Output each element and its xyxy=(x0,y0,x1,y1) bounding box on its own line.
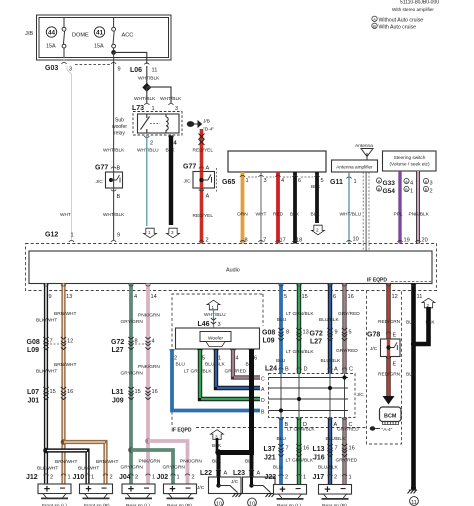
wire BLK G65-6 to G12-18 xyxy=(293,172,297,244)
svg-text:G33: G33 xyxy=(383,180,396,187)
svg-text:BLK: BLK xyxy=(290,212,300,218)
svg-text:BLK: BLK xyxy=(245,459,255,465)
svg-text:10: 10 xyxy=(353,237,359,243)
svg-text:GRY/RED: GRY/RED xyxy=(336,458,358,464)
svg-text:G54: G54 xyxy=(383,188,396,195)
svg-text:J21: J21 xyxy=(264,455,276,462)
svg-text:RED/YEL: RED/YEL xyxy=(193,213,214,219)
svg-text:G03: G03 xyxy=(45,65,58,72)
svg-text:IF EQPD: IF EQPD xyxy=(172,428,192,434)
fuse 41 ACC 15A xyxy=(112,18,116,53)
svg-text:A: A xyxy=(425,179,428,184)
wire RED/GRN audio-12 to BCM xyxy=(386,284,390,397)
svg-text:9: 9 xyxy=(118,67,121,73)
svg-text:A: A xyxy=(224,471,228,477)
svg-text:Antenna amplifier: Antenna amplifier xyxy=(336,164,373,169)
svg-text:2: 2 xyxy=(430,189,433,195)
svg-text:BLU/BLK: BLU/BLK xyxy=(318,465,339,471)
svg-text:BLK: BLK xyxy=(311,184,321,190)
svg-text:PNK/GRN: PNK/GRN xyxy=(180,459,202,465)
svg-text:L22: L22 xyxy=(200,470,212,477)
svg-text:15: 15 xyxy=(50,389,56,395)
note A without auto cruise xyxy=(372,16,377,21)
node BLK/WHT split xyxy=(43,448,49,454)
svg-text:41: 41 xyxy=(96,30,104,37)
svg-text:J16: J16 xyxy=(313,455,325,462)
svg-text:4: 4 xyxy=(134,294,137,300)
wire LT GRN/BLK audio-15 xyxy=(297,284,301,485)
node GRY/GRN split xyxy=(128,447,134,453)
J/B D-4 connector arrow xyxy=(187,121,201,127)
wire WHT/BLU relay pin2 down to arrow 1 xyxy=(146,135,148,226)
svg-text:3: 3 xyxy=(264,178,267,184)
svg-text:B: B xyxy=(405,187,408,192)
svg-text:BLU: BLU xyxy=(276,358,286,364)
svg-text:16: 16 xyxy=(303,446,309,452)
node L24 row B to col B xyxy=(279,408,283,412)
junction block J/B (fuse box) xyxy=(37,15,172,60)
svg-text:BLK/WHT: BLK/WHT xyxy=(36,318,57,324)
svg-text:5: 5 xyxy=(202,356,205,362)
svg-text:15: 15 xyxy=(135,389,141,395)
svg-text:A: A xyxy=(373,17,376,22)
svg-text:A: A xyxy=(378,179,381,184)
svg-text:A: A xyxy=(257,471,261,477)
svg-text:G72: G72 xyxy=(310,331,323,338)
wire GRY/RED woofer-4 to L24 row C xyxy=(233,349,260,378)
ground (L23) xyxy=(266,494,276,498)
svg-text:With Auto cruise: With Auto cruise xyxy=(379,24,417,30)
svg-text:BLU/BLK: BLU/BLK xyxy=(326,436,347,442)
svg-text:9: 9 xyxy=(117,233,120,239)
svg-text:GRY/RED: GRY/RED xyxy=(338,311,360,317)
svg-text:"D-4": "D-4" xyxy=(203,127,214,133)
svg-text:WHT/BLU: WHT/BLU xyxy=(340,212,362,218)
svg-text:2: 2 xyxy=(285,475,288,481)
arrow callout 1 (woofer feed from relay) xyxy=(207,300,220,310)
note B with auto cruise xyxy=(372,23,377,28)
svg-text:J/C: J/C xyxy=(370,346,378,352)
BCM box xyxy=(380,407,402,422)
svg-text:C: C xyxy=(261,377,265,383)
connector G65 box xyxy=(228,151,326,172)
svg-text:BLU: BLU xyxy=(277,436,287,442)
junction connector L22 J/C to ground xyxy=(209,477,242,494)
svg-text:IF EQPD: IF EQPD xyxy=(367,278,387,284)
wire BLU woofer-2 to L24 row B xyxy=(172,349,260,411)
svg-text:L06: L06 xyxy=(130,67,142,74)
svg-text:16: 16 xyxy=(67,389,73,395)
svg-text:2: 2 xyxy=(150,141,153,147)
svg-text:J/C: J/C xyxy=(96,179,104,185)
svg-text:B: B xyxy=(117,166,121,172)
fuse 44 DOME 15A xyxy=(62,18,66,58)
svg-text:WHT/BLK: WHT/BLK xyxy=(103,148,125,154)
svg-text:13: 13 xyxy=(66,294,72,300)
antenna amplifier box xyxy=(332,160,378,172)
svg-text:LT GRN/BLK: LT GRN/BLK xyxy=(287,427,315,433)
svg-text:ORN: ORN xyxy=(237,212,248,218)
node PNK/GRN split xyxy=(145,438,151,444)
svg-text:2: 2 xyxy=(50,475,53,481)
svg-text:2: 2 xyxy=(334,475,337,481)
svg-text:G11: G11 xyxy=(330,179,343,186)
wire BLK G65-5 to arrow 2 xyxy=(315,172,319,223)
svg-text:BLK: BLK xyxy=(426,320,436,326)
svg-text:GRY/RED: GRY/RED xyxy=(336,348,358,354)
svg-text:4: 4 xyxy=(152,339,155,345)
svg-text:relay: relay xyxy=(114,131,125,137)
svg-text:G65: G65 xyxy=(222,179,235,186)
svg-text:11: 11 xyxy=(411,500,417,506)
svg-text:51110-80JB0-000: 51110-80JB0-000 xyxy=(400,0,439,6)
arrow callout 3 xyxy=(167,228,180,238)
wire PPL to G12-19 xyxy=(398,171,401,244)
L24 bottom pins B,D,A,C xyxy=(278,418,283,420)
wire GRY/RED audio-16 xyxy=(342,284,346,485)
node BRN/WHT split xyxy=(61,439,67,445)
svg-text:L23: L23 xyxy=(233,470,245,477)
svg-text:7: 7 xyxy=(286,446,289,452)
svg-text:E: E xyxy=(393,333,397,339)
svg-text:B: B xyxy=(285,367,289,373)
svg-text:1: 1 xyxy=(68,475,71,481)
svg-text:B: B xyxy=(117,194,121,200)
svg-text:1: 1 xyxy=(152,475,155,481)
svg-text:J09: J09 xyxy=(112,398,124,405)
svg-text:12: 12 xyxy=(392,294,398,300)
wire BRN/WHT audio-13 to front speakers xyxy=(61,284,65,485)
svg-text:B: B xyxy=(378,187,381,192)
svg-text:GRY/GRN: GRY/GRN xyxy=(163,465,186,471)
svg-text:BRN/WHT: BRN/WHT xyxy=(54,362,76,368)
svg-text:9: 9 xyxy=(335,330,338,336)
svg-text:LT GRN/BLK: LT GRN/BLK xyxy=(286,311,314,317)
svg-text:6: 6 xyxy=(254,356,257,362)
speaker (rear, J17) xyxy=(319,484,352,499)
svg-text:L09: L09 xyxy=(263,338,275,345)
svg-text:3: 3 xyxy=(218,322,221,328)
svg-text:BLK: BLK xyxy=(212,459,222,465)
woofer box xyxy=(176,328,260,349)
svg-text:WHT/BLU: WHT/BLU xyxy=(204,312,226,318)
svg-text:WHT/BLK: WHT/BLK xyxy=(103,212,125,218)
svg-text:L07: L07 xyxy=(27,389,39,396)
L24 internal grid xyxy=(269,374,349,418)
wire WHT/BLK to relay pin 1 xyxy=(146,87,148,103)
svg-text:11: 11 xyxy=(152,68,158,74)
svg-text:L13: L13 xyxy=(313,446,325,453)
svg-text:4: 4 xyxy=(236,356,239,362)
svg-text:2: 2 xyxy=(174,356,177,362)
svg-text:BRN/WHT: BRN/WHT xyxy=(96,459,118,465)
svg-text:LT GRN/BLK: LT GRN/BLK xyxy=(286,458,314,464)
svg-text:Audio: Audio xyxy=(226,268,240,274)
connectors G33 (A) / G54 (B) xyxy=(376,178,381,183)
svg-text:BLK/WHT: BLK/WHT xyxy=(78,466,99,472)
svg-text:2: 2 xyxy=(206,238,209,244)
svg-text:BLK: BLK xyxy=(406,320,416,326)
arrow callout 1 (to woofer page) xyxy=(144,228,157,238)
svg-text:J/C: J/C xyxy=(184,179,192,185)
wire BLK woofer-6 (thick ground) xyxy=(220,349,252,453)
svg-text:WHT: WHT xyxy=(256,212,267,218)
svg-text:10: 10 xyxy=(249,502,255,506)
svg-text:WHT: WHT xyxy=(60,212,71,218)
svg-text:19: 19 xyxy=(404,238,410,244)
svg-text:LT GRN/BLK: LT GRN/BLK xyxy=(286,349,314,355)
svg-text:J01: J01 xyxy=(28,398,40,405)
svg-text:DOME: DOME xyxy=(72,33,89,39)
svg-text:1: 1 xyxy=(303,475,306,481)
svg-text:J12: J12 xyxy=(26,474,38,481)
svg-text:B: B xyxy=(261,410,265,416)
svg-text:B: B xyxy=(373,24,376,29)
svg-text:2: 2 xyxy=(135,475,138,481)
speaker (rear, J22) xyxy=(274,484,307,499)
svg-text:BLK/WHT: BLK/WHT xyxy=(36,369,57,375)
svg-text:L31: L31 xyxy=(112,389,124,396)
svg-text:14: 14 xyxy=(151,294,157,300)
svg-text:BLU/BLK: BLU/BLK xyxy=(321,358,342,364)
wire BLK relay pin4 down to arrow 3 xyxy=(169,136,173,226)
svg-text:5: 5 xyxy=(321,178,324,184)
svg-text:2: 2 xyxy=(316,228,319,233)
svg-text:G08: G08 xyxy=(262,330,275,337)
svg-text:BLU: BLU xyxy=(277,317,287,323)
svg-text:BCM: BCM xyxy=(384,414,397,420)
svg-text:WHT/BLU: WHT/BLU xyxy=(137,148,159,154)
svg-text:15A: 15A xyxy=(94,44,104,50)
svg-text:Woofer: Woofer xyxy=(208,336,223,341)
wire BLU/BLK audio-6 xyxy=(328,284,332,485)
svg-text:5: 5 xyxy=(349,330,352,336)
svg-text:woofer: woofer xyxy=(112,124,127,130)
svg-text:J17: J17 xyxy=(313,474,325,481)
svg-text:1: 1 xyxy=(91,475,94,481)
wire RED/YEL from J/B D-4 down through G77 to G12 pin 2 xyxy=(200,129,204,244)
svg-text:11: 11 xyxy=(417,294,423,300)
svg-text:18: 18 xyxy=(296,238,302,244)
wire PNK/GRN branch to J02 xyxy=(148,441,188,484)
svg-text:L24: L24 xyxy=(265,366,277,373)
svg-text:RED/GRN: RED/GRN xyxy=(378,372,401,378)
wire WHT G65-3 to G12-7 xyxy=(260,172,262,244)
wire BLU/BLK woofer-1 to L24 row A xyxy=(216,349,260,388)
svg-text:L37: L37 xyxy=(264,446,276,453)
svg-text:WHT/BLK: WHT/BLK xyxy=(138,76,160,82)
wire BLK to L22 xyxy=(217,453,221,478)
svg-text:J22: J22 xyxy=(265,474,277,481)
audio unit box xyxy=(29,251,432,284)
svg-text:J/B: J/B xyxy=(203,119,210,125)
svg-text:ACC: ACC xyxy=(122,33,134,39)
svg-text:4: 4 xyxy=(410,181,413,187)
svg-text:A: A xyxy=(206,194,210,200)
ground 11 xyxy=(411,485,416,490)
svg-text:4: 4 xyxy=(281,178,284,184)
svg-text:BRN/WHT: BRN/WHT xyxy=(55,459,77,465)
wire BLK from arrow 2 joining main BLK xyxy=(414,307,429,344)
G78 / BCM dashed enclosure xyxy=(367,291,402,445)
svg-text:G72: G72 xyxy=(111,339,124,346)
svg-text:7: 7 xyxy=(263,238,266,244)
arrowhead into BCM xyxy=(383,396,395,405)
svg-text:J/C: J/C xyxy=(197,485,205,491)
svg-text:(Volume / seek etc): (Volume / seek etc) xyxy=(389,162,430,167)
svg-text:7: 7 xyxy=(335,446,338,452)
svg-text:Steering switch: Steering switch xyxy=(394,155,426,160)
arrow callout 2 (below G65 pin 5) xyxy=(312,225,325,235)
svg-text:E: E xyxy=(393,362,397,368)
svg-text:5: 5 xyxy=(284,294,287,300)
svg-text:44: 44 xyxy=(48,30,56,37)
wire BLK/WHT branch to J10 xyxy=(46,451,88,485)
svg-text:Sub: Sub xyxy=(115,118,124,124)
svg-text:PPL: PPL xyxy=(394,212,403,218)
J/B A-4 reference below BCM xyxy=(370,426,376,430)
IF EQPD dashed region boundary xyxy=(172,294,263,425)
svg-text:BLK: BLK xyxy=(406,372,416,378)
svg-text:1: 1 xyxy=(354,179,357,185)
svg-text:J02: J02 xyxy=(157,474,169,481)
svg-text:12: 12 xyxy=(67,339,73,345)
svg-text:L27: L27 xyxy=(310,339,322,346)
svg-text:A: A xyxy=(206,166,210,172)
svg-text:C: C xyxy=(349,367,353,373)
node BLK ground junction xyxy=(215,449,221,455)
svg-text:15: 15 xyxy=(302,294,308,300)
svg-text:PNK/GRN: PNK/GRN xyxy=(139,459,161,465)
svg-text:1: 1 xyxy=(71,233,74,239)
speaker (front, J12) xyxy=(38,483,71,498)
wire BLU audio-5 to rear speaker J22 xyxy=(279,284,283,485)
svg-text:13: 13 xyxy=(303,330,309,336)
svg-text:1: 1 xyxy=(410,189,413,195)
wire BRN/WHT branch to J10 xyxy=(64,442,106,484)
svg-text:3: 3 xyxy=(171,230,174,235)
svg-text:GRY/RED: GRY/RED xyxy=(337,427,359,433)
svg-text:PNK/BLK: PNK/BLK xyxy=(409,212,430,218)
svg-text:G77: G77 xyxy=(95,165,108,172)
svg-text:17: 17 xyxy=(280,238,286,244)
svg-text:GRY/GRN: GRY/GRN xyxy=(121,465,144,471)
svg-text:6: 6 xyxy=(298,178,301,184)
svg-text:16: 16 xyxy=(152,389,158,395)
svg-text:G77: G77 xyxy=(183,164,196,171)
svg-text:D: D xyxy=(261,398,265,404)
svg-text:L09: L09 xyxy=(27,347,39,354)
svg-text:L46: L46 xyxy=(198,321,210,328)
svg-text:3: 3 xyxy=(69,67,72,73)
svg-text:15A: 15A xyxy=(46,44,56,50)
svg-text:D: D xyxy=(304,367,308,373)
svg-text:RED/GRN: RED/GRN xyxy=(378,319,401,325)
svg-text:2: 2 xyxy=(110,475,113,481)
svg-text:A: A xyxy=(405,179,408,184)
wire GRY/GRN branch to J02 xyxy=(131,450,173,484)
wire WHT/BLK branch to relay pin 3 xyxy=(147,87,171,103)
svg-text:L27: L27 xyxy=(112,347,124,354)
speaker (rear, J02) xyxy=(164,483,197,498)
svg-text:8: 8 xyxy=(245,238,248,244)
wire BLK to L23 xyxy=(250,453,254,478)
svg-text:RED/YEL: RED/YEL xyxy=(193,148,214,154)
svg-text:B: B xyxy=(425,187,428,192)
svg-text:BRN/WHT: BRN/WHT xyxy=(54,311,76,317)
arrow callout 2 (BLK from other page) xyxy=(422,298,435,308)
wire BLK/WHT audio-9 to front speakers xyxy=(44,284,48,485)
svg-text:G78: G78 xyxy=(367,332,380,339)
wire ACC down to G12 pin 9 xyxy=(113,52,115,240)
svg-text:BLK: BLK xyxy=(311,212,321,218)
svg-text:J/B: J/B xyxy=(25,31,33,37)
svg-text:G12: G12 xyxy=(45,232,58,239)
svg-text:WHT/BLK: WHT/BLK xyxy=(134,96,156,102)
svg-text:G08: G08 xyxy=(27,339,40,346)
junction connector L23 J/C to ground xyxy=(243,477,276,494)
speaker (front, J10) xyxy=(80,483,113,498)
svg-text:Without Auto cruise: Without Auto cruise xyxy=(379,17,424,23)
wire shielded antenna cable xyxy=(365,172,367,251)
svg-text:"A-4": "A-4" xyxy=(382,427,393,433)
svg-text:GRY/GRN: GRY/GRN xyxy=(121,319,144,325)
svg-text:1: 1 xyxy=(148,230,151,235)
svg-text:BLK/WHT: BLK/WHT xyxy=(37,466,58,472)
wire DOME to G03 pin 3 (WHT, faint) xyxy=(64,58,72,241)
wire GRY/GRN audio-4 to rear speakers xyxy=(129,284,133,485)
svg-text:J/C: J/C xyxy=(231,479,239,485)
svg-text:GRY/RED: GRY/RED xyxy=(225,369,247,375)
svg-text:With stereo amplifier: With stereo amplifier xyxy=(392,7,434,12)
node L24 row D to col D xyxy=(297,397,301,401)
svg-text:J/C: J/C xyxy=(357,392,365,398)
svg-text:A: A xyxy=(261,387,265,393)
svg-text:16: 16 xyxy=(349,446,355,452)
steering switch box xyxy=(383,151,437,171)
wire PNK/GRN audio-14 xyxy=(146,284,150,485)
svg-text:16: 16 xyxy=(348,294,354,300)
svg-text:RED: RED xyxy=(273,212,284,218)
svg-text:BLU: BLU xyxy=(176,362,186,368)
svg-text:9: 9 xyxy=(49,294,52,300)
svg-text:1: 1 xyxy=(246,178,249,184)
svg-text:8: 8 xyxy=(286,330,289,336)
svg-text:1: 1 xyxy=(218,356,221,362)
svg-text:J10: J10 xyxy=(73,474,85,481)
node L24 row A to col A xyxy=(328,386,332,390)
wire WHT/BLU G11-1 to G12-10 xyxy=(348,172,350,244)
svg-text:20: 20 xyxy=(422,238,428,244)
svg-text:A: A xyxy=(334,367,338,373)
svg-text:10: 10 xyxy=(216,502,222,506)
speaker (rear, J04) xyxy=(122,483,155,498)
ground (L22) xyxy=(233,494,243,498)
node ACC branch junction xyxy=(111,50,116,55)
svg-text:1: 1 xyxy=(177,475,180,481)
svg-text:3: 3 xyxy=(430,181,433,187)
svg-text:1: 1 xyxy=(349,475,352,481)
svg-text:PNK/GRN: PNK/GRN xyxy=(138,364,160,370)
woofer pins 2,5,1,4,6 xyxy=(169,350,174,352)
wire RED G65-4 to G12-17 xyxy=(276,172,280,244)
wire ACC to L06 pin 11 (inside J/B) xyxy=(114,52,147,64)
svg-text:BLU/BLK: BLU/BLK xyxy=(319,317,340,323)
wire PNK/BLK to G12-20 xyxy=(416,171,420,244)
svg-text:PNK/GRN: PNK/GRN xyxy=(138,313,160,319)
svg-text:6: 6 xyxy=(333,294,336,300)
wire BLK audio-11 to ground 11 xyxy=(411,284,416,488)
